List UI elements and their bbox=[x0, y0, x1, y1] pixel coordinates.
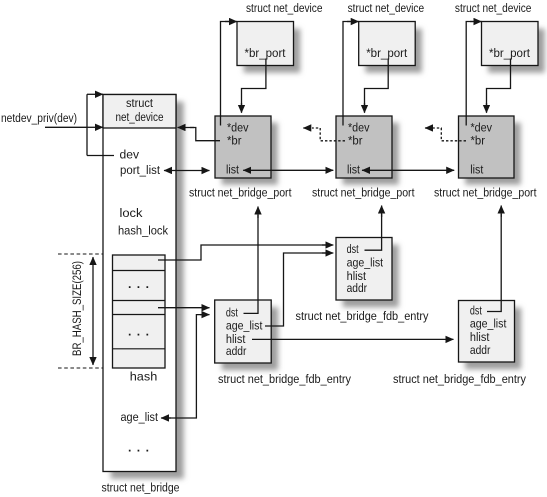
BR_HASH_SIZE bracket dashed bottom bbox=[58, 367, 103, 369]
svg-text:dst: dst bbox=[347, 242, 359, 256]
wire device3 *br_port down to port3 bbox=[487, 59, 511, 106]
svg-text:*dev: *dev bbox=[348, 121, 370, 135]
svg-text:struct net_device: struct net_device bbox=[455, 1, 532, 15]
wire netdev_priv trunk bbox=[45, 94, 114, 155]
svg-text:*br: *br bbox=[227, 134, 242, 148]
box fdb1: struct net_bridge_fdb_entry bbox=[336, 238, 392, 301]
svg-text:struct net_device: struct net_device bbox=[246, 1, 323, 15]
box fdb2: struct net_bridge_fdb_entry bbox=[215, 300, 272, 363]
shadow fdb1 bbox=[343, 245, 399, 308]
box port1: struct net_bridge_port bbox=[215, 116, 271, 178]
svg-text:list: list bbox=[347, 163, 361, 177]
svg-text:struct net_bridge_port: struct net_bridge_port bbox=[434, 186, 537, 200]
svg-text:. . .: . . . bbox=[128, 277, 150, 291]
box port3: struct net_bridge_port bbox=[459, 116, 515, 178]
svg-text:struct net_bridge_fdb_entry: struct net_bridge_fdb_entry bbox=[218, 372, 352, 386]
svg-text:hash: hash bbox=[130, 370, 158, 384]
svg-text:*br: *br bbox=[348, 134, 363, 148]
svg-text:. . .: . . . bbox=[128, 325, 150, 339]
arrow netdev_priv to header bottom bbox=[87, 126, 103, 128]
svg-text:port_list: port_list bbox=[120, 163, 161, 177]
wire port3 *dev to device3 bbox=[466, 22, 473, 126]
box device1: struct net_device bbox=[237, 22, 294, 66]
wire port1 *br to bridge box bbox=[190, 128, 220, 141]
shadow of struct net_bridge main box bbox=[111, 102, 184, 479]
svg-text:age_list: age_list bbox=[226, 319, 263, 333]
wire port2 list to port3 list (double arrow) bbox=[362, 169, 454, 171]
svg-text:list: list bbox=[226, 163, 240, 177]
svg-text:struct net_device: struct net_device bbox=[348, 1, 425, 15]
shadow port2 bbox=[343, 123, 399, 185]
svg-text:addr: addr bbox=[226, 344, 247, 358]
BR_HASH_SIZE bracket dashed top bbox=[58, 253, 103, 255]
wire bridge age_list to fdb2 (double arrow) bbox=[163, 315, 202, 418]
wire port1 list to port2 list (double arrow) bbox=[243, 169, 333, 171]
shadow fdb2 bbox=[222, 307, 279, 370]
svg-text:age_list: age_list bbox=[121, 410, 159, 424]
svg-text:netdev_priv(dev): netdev_priv(dev) bbox=[1, 111, 77, 125]
shadow device3 bbox=[488, 29, 545, 73]
svg-text:*br: *br bbox=[471, 134, 486, 148]
box device2: struct net_device bbox=[359, 22, 416, 66]
svg-text:*dev: *dev bbox=[471, 121, 493, 135]
svg-text:struct net_bridge: struct net_bridge bbox=[102, 481, 180, 495]
svg-text:struct: struct bbox=[126, 96, 154, 110]
svg-text:net_device: net_device bbox=[116, 110, 164, 124]
shadow port1 bbox=[222, 123, 278, 185]
svg-text:addr: addr bbox=[470, 343, 491, 357]
dashed wire port2 *br bbox=[312, 128, 345, 141]
wire hash cell1 to fdb1 bbox=[158, 245, 328, 260]
shadow device1 bbox=[244, 29, 301, 73]
wire hash cell3 to fdb2 bbox=[158, 307, 210, 309]
wire fdb1 dst up to port2 label bbox=[365, 214, 382, 250]
svg-text:age_list: age_list bbox=[470, 317, 507, 331]
wire fdb2 hlist to fdb3 bbox=[252, 338, 454, 340]
svg-text:struct net_bridge_fdb_entry: struct net_bridge_fdb_entry bbox=[296, 309, 430, 323]
arrow netdev_priv to box top bbox=[87, 93, 103, 95]
svg-text:struct net_bridge_port: struct net_bridge_port bbox=[189, 186, 292, 200]
wire device1 *br_port down to port1 bbox=[242, 59, 266, 106]
svg-text:*br_port: *br_port bbox=[245, 46, 287, 60]
box fdb3: struct net_bridge_fdb_entry bbox=[459, 301, 515, 363]
shadow device2 bbox=[365, 29, 422, 73]
svg-text:struct net_bridge_port: struct net_bridge_port bbox=[312, 186, 415, 200]
box port2: struct net_bridge_port bbox=[336, 116, 392, 178]
dashed wire port3 *br bbox=[433, 128, 466, 141]
wire fdb2 age_list to fdb1 bbox=[265, 253, 328, 326]
wire port_list to port1 list (double arrow) bbox=[164, 170, 210, 172]
svg-text:*dev: *dev bbox=[227, 121, 249, 135]
hash table bbox=[113, 255, 166, 368]
svg-text:dev: dev bbox=[120, 148, 140, 162]
svg-text:list: list bbox=[470, 163, 484, 177]
svg-text:hlist: hlist bbox=[470, 330, 490, 344]
header section: struct net_device bbox=[103, 95, 176, 129]
box device3: struct net_device bbox=[482, 22, 539, 66]
BR_HASH_SIZE vertical double arrow bbox=[92, 257, 94, 365]
svg-text:age_list: age_list bbox=[347, 256, 384, 270]
svg-text:BR_HASH_SIZE(256): BR_HASH_SIZE(256) bbox=[70, 261, 84, 356]
svg-text:*br_port: *br_port bbox=[489, 46, 531, 60]
svg-text:struct net_bridge_fdb_entry: struct net_bridge_fdb_entry bbox=[393, 372, 527, 386]
wire fdb2 dst up to port1 label bbox=[244, 215, 259, 313]
svg-text:addr: addr bbox=[347, 281, 368, 295]
wire port2 *dev to device2 bbox=[343, 22, 350, 126]
shadow fdb3 bbox=[465, 308, 521, 370]
svg-text:dst: dst bbox=[470, 304, 482, 318]
svg-text:. . .: . . . bbox=[128, 441, 150, 455]
svg-text:hash_lock: hash_lock bbox=[118, 224, 169, 238]
svg-text:dst: dst bbox=[226, 306, 238, 320]
svg-text:*br_port: *br_port bbox=[366, 46, 408, 60]
wire device2 *br_port down to port2 bbox=[365, 59, 389, 106]
svg-text:lock: lock bbox=[120, 206, 144, 220]
main box: struct net_bridge bbox=[103, 95, 176, 472]
wire port1 *dev to device1 bbox=[221, 22, 230, 126]
wire fdb3 dst up to port3 label bbox=[487, 214, 501, 312]
shadow port3 bbox=[465, 123, 521, 185]
